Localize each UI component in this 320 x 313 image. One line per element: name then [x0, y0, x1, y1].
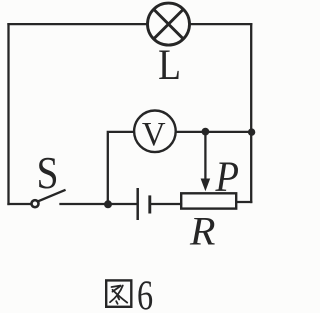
svg-text:P: P — [215, 152, 239, 201]
svg-text:L: L — [158, 41, 181, 89]
svg-text:R: R — [189, 209, 216, 253]
svg-text:V: V — [142, 116, 166, 153]
svg-text:S: S — [36, 149, 58, 199]
svg-text:6: 6 — [137, 274, 153, 313]
